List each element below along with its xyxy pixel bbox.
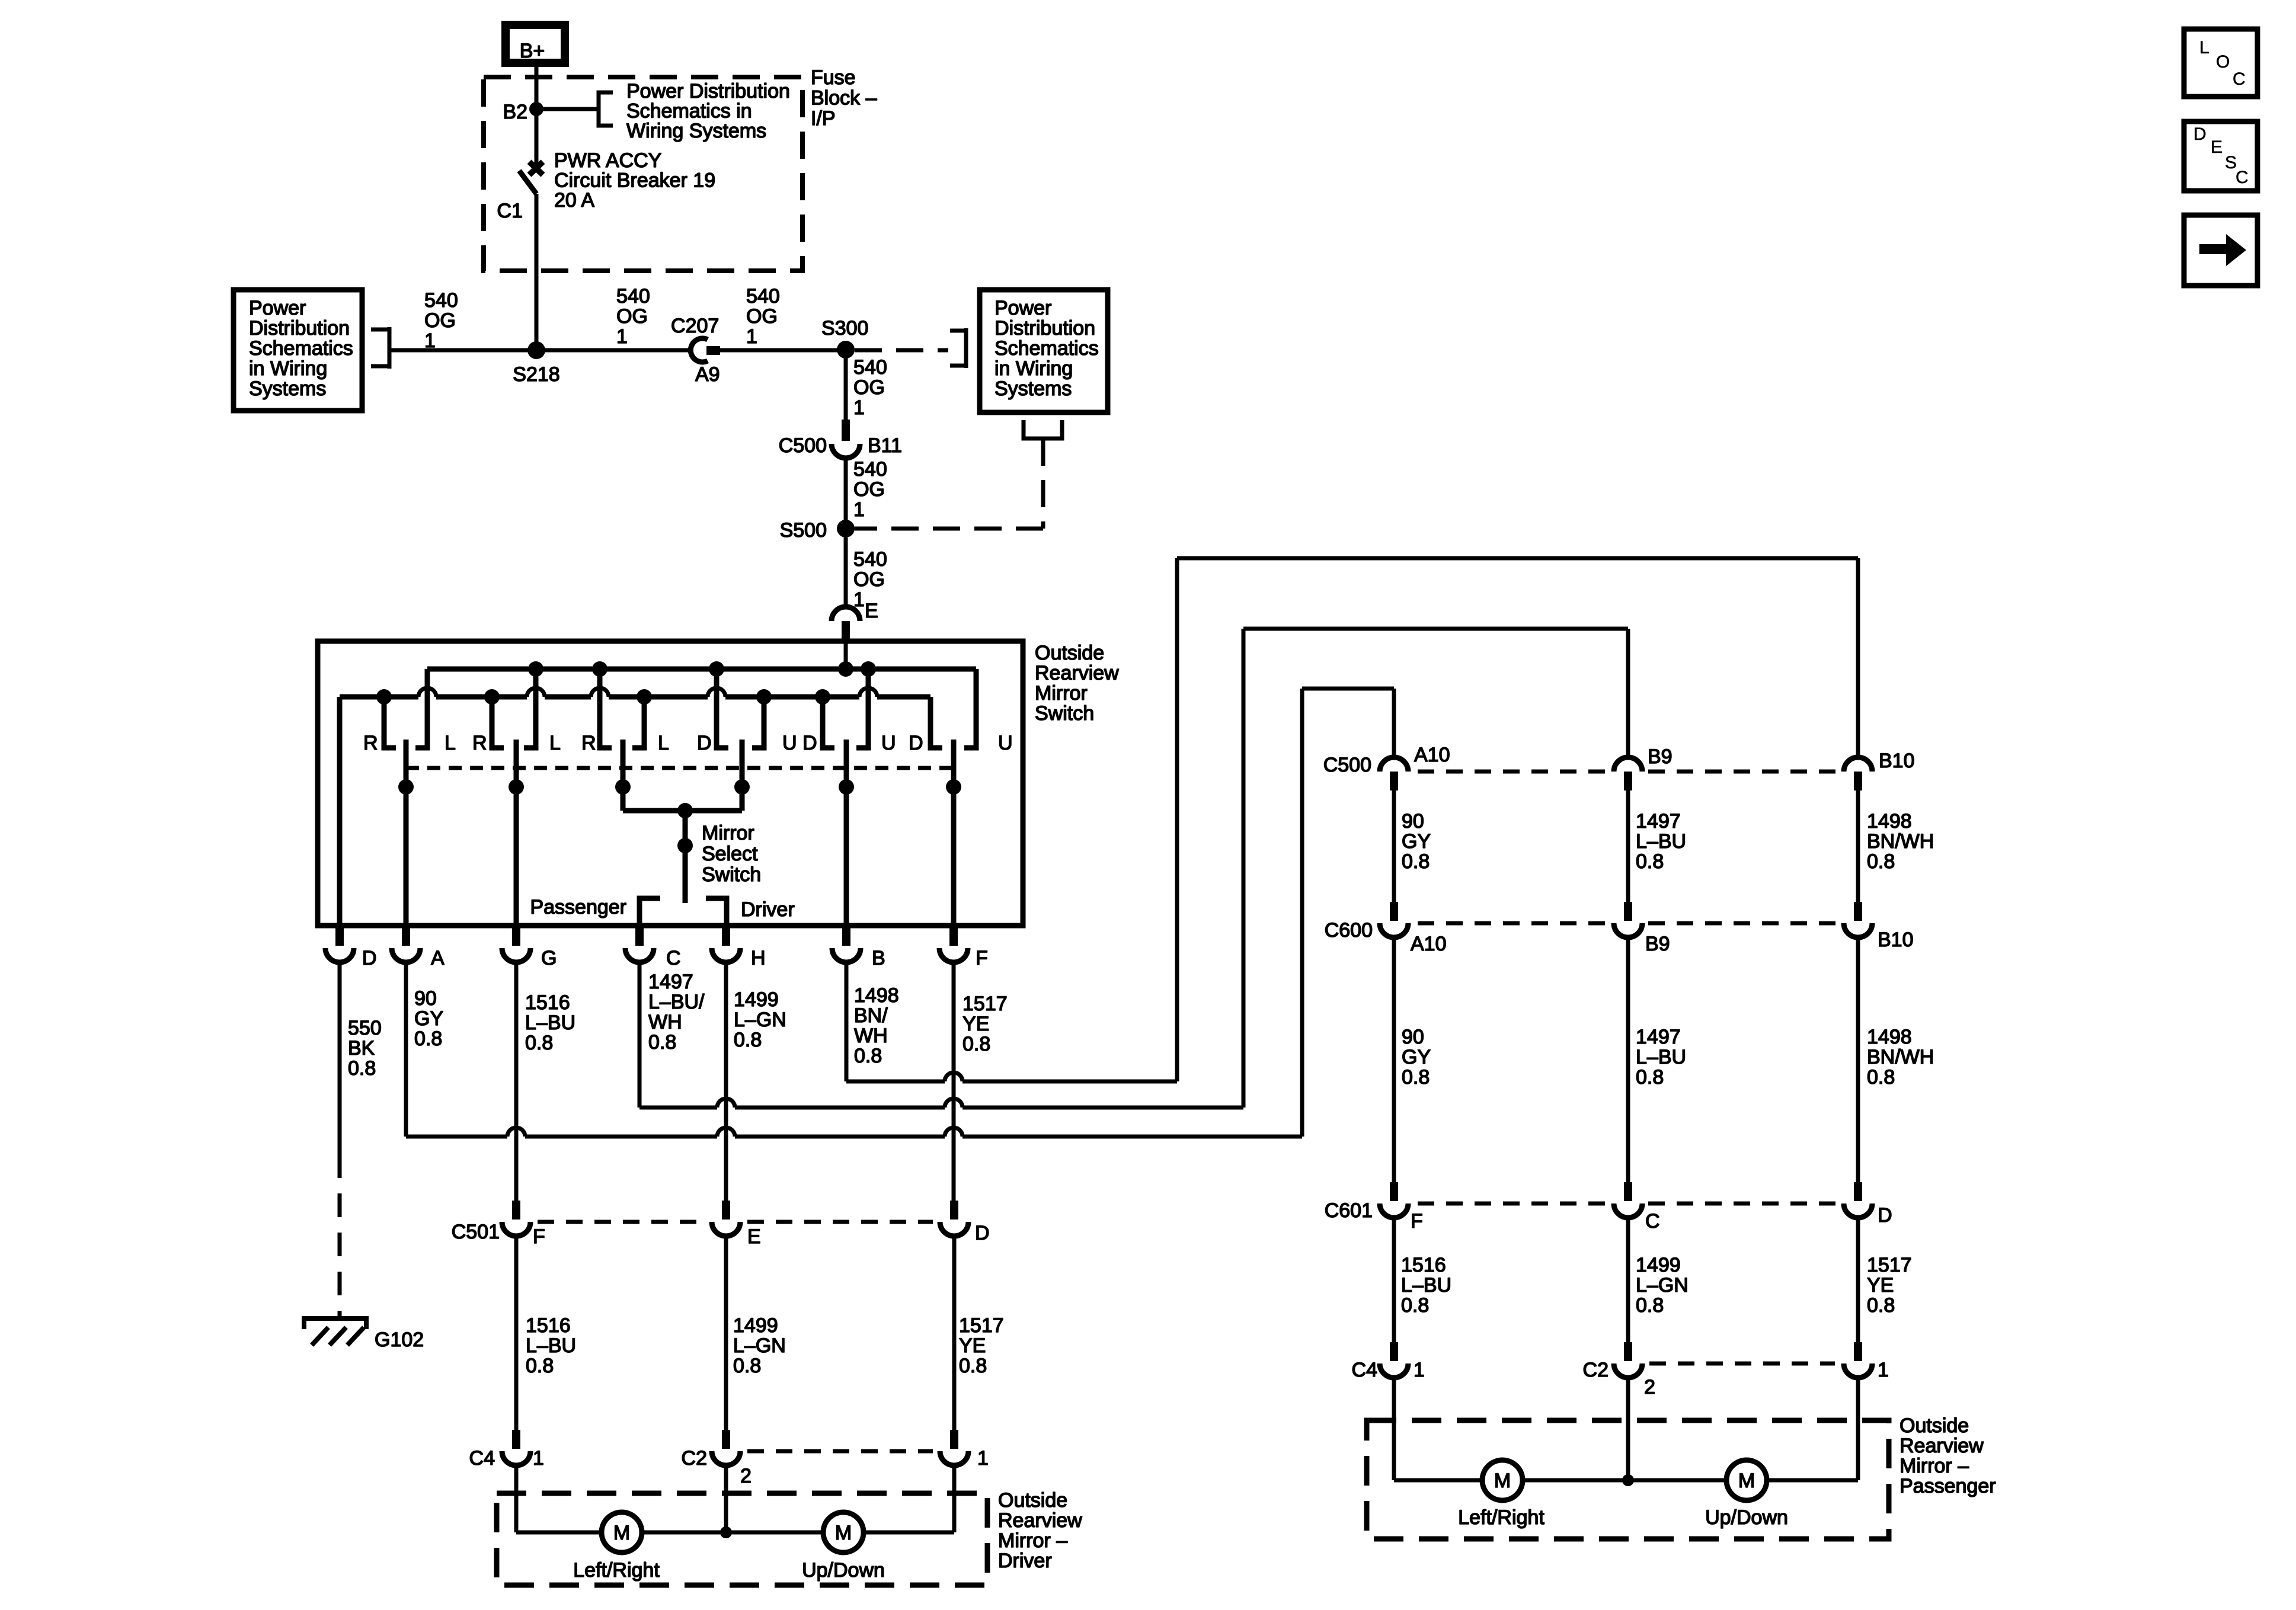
svg-text:Block –: Block – xyxy=(811,87,877,110)
svg-text:L–GN: L–GN xyxy=(1636,1274,1689,1297)
svg-text:R: R xyxy=(472,732,487,754)
wire 1497 C500 to C600 xyxy=(1626,790,1630,902)
svg-text:U: U xyxy=(998,732,1013,754)
wire 1499 C501 to C2 xyxy=(724,1236,728,1430)
svg-text:Power: Power xyxy=(249,297,306,319)
pole driver-UD to F xyxy=(951,740,957,926)
pole mid-UD to B xyxy=(844,740,849,926)
svg-text:in Wiring: in Wiring xyxy=(249,357,327,380)
svg-text:B2: B2 xyxy=(503,101,527,123)
svg-text:Switch: Switch xyxy=(702,863,761,886)
svg-text:1516: 1516 xyxy=(1401,1254,1446,1276)
svg-text:1499: 1499 xyxy=(733,1314,778,1337)
svg-text:Up/Down: Up/Down xyxy=(802,1559,885,1582)
wire 1517 C501 to C4-1 xyxy=(952,1236,957,1430)
connector pin B below switch xyxy=(842,926,850,946)
svg-text:G102: G102 xyxy=(375,1329,424,1351)
svg-text:H: H xyxy=(751,947,766,969)
node B2 xyxy=(529,102,543,116)
svg-text:90: 90 xyxy=(1402,1026,1424,1048)
svg-text:R: R xyxy=(363,732,378,754)
motor left/right driver xyxy=(602,1512,642,1553)
svg-text:Schematics in: Schematics in xyxy=(626,100,752,123)
svg-text:C1: C1 xyxy=(497,200,523,222)
circuit breaker CB19 contact X xyxy=(529,162,543,175)
svg-text:L: L xyxy=(445,732,456,754)
svg-text:A9: A9 xyxy=(695,363,720,386)
svg-text:Distribution: Distribution xyxy=(994,317,1095,340)
svg-text:R: R xyxy=(581,732,596,754)
pole mid-LR to G xyxy=(514,740,519,926)
wire C500 to S500 xyxy=(844,458,848,520)
connector E mirror switch xyxy=(832,607,860,621)
svg-text:C207: C207 xyxy=(671,315,719,337)
pole select-LR xyxy=(621,740,626,811)
svg-text:Mirror: Mirror xyxy=(702,822,754,844)
svg-text:1499: 1499 xyxy=(1636,1254,1681,1276)
svg-text:1: 1 xyxy=(533,1447,544,1470)
svg-text:1497: 1497 xyxy=(1636,810,1681,833)
svg-text:C: C xyxy=(2236,168,2249,187)
svg-text:WH: WH xyxy=(648,1011,682,1033)
svg-text:S500: S500 xyxy=(780,519,827,542)
dashed link C2 row passenger xyxy=(1649,1362,1835,1366)
svg-text:F: F xyxy=(533,1225,545,1248)
svg-text:L–BU/: L–BU/ xyxy=(648,991,705,1013)
svg-text:0.8: 0.8 xyxy=(1636,1294,1664,1317)
svg-text:540: 540 xyxy=(616,285,650,308)
contact L mid-LR (from row1) xyxy=(524,669,536,748)
wire C4-1 into passenger mirror xyxy=(1392,1378,1396,1480)
svg-text:OG: OG xyxy=(853,376,885,399)
svg-text:Driver: Driver xyxy=(741,898,795,921)
svg-text:E: E xyxy=(2211,137,2223,157)
svg-text:Wiring Systems: Wiring Systems xyxy=(626,120,766,142)
wire C2-2 into driver mirror xyxy=(724,1465,728,1532)
svg-text:540: 540 xyxy=(853,356,887,379)
svg-text:Schematics: Schematics xyxy=(994,337,1099,360)
wire 1499 L-GN from H to C501-E xyxy=(724,962,728,1201)
switch bus row2 with crossover hops xyxy=(340,694,418,700)
svg-text:C600: C600 xyxy=(1325,919,1373,942)
svg-text:0.8: 0.8 xyxy=(526,1355,554,1377)
svg-text:Switch: Switch xyxy=(1035,702,1094,725)
svg-text:0.8: 0.8 xyxy=(414,1028,442,1050)
svg-text:Passenger: Passenger xyxy=(530,896,626,918)
svg-text:Rearview: Rearview xyxy=(1900,1435,1984,1457)
passenger motor rail xyxy=(1394,1478,1482,1483)
svg-text:1: 1 xyxy=(746,325,757,348)
circuit breaker CB19 blade xyxy=(519,171,536,194)
svg-text:0.8: 0.8 xyxy=(1401,1294,1429,1317)
svg-text:Distribution: Distribution xyxy=(249,317,350,340)
svg-text:L–BU: L–BU xyxy=(1401,1274,1451,1297)
svg-text:L–BU: L–BU xyxy=(1636,1046,1686,1068)
svg-text:S218: S218 xyxy=(513,363,559,386)
svg-text:C4: C4 xyxy=(1352,1359,1377,1381)
svg-text:D: D xyxy=(362,947,377,969)
svg-text:Mirror –: Mirror – xyxy=(998,1529,1067,1552)
svg-text:D: D xyxy=(1878,1204,1892,1227)
svg-text:C2: C2 xyxy=(682,1447,707,1470)
svg-text:0.8: 0.8 xyxy=(648,1031,676,1054)
connector C501-D xyxy=(950,1201,958,1219)
svg-text:Power: Power xyxy=(994,297,1051,319)
node S500 xyxy=(837,520,855,537)
switch bus row1 xyxy=(427,667,976,672)
svg-text:Outside: Outside xyxy=(1900,1414,1969,1437)
connector C500 B11 xyxy=(842,420,850,441)
svg-text:D: D xyxy=(975,1222,990,1244)
svg-text:C: C xyxy=(2233,69,2246,89)
svg-text:B: B xyxy=(872,947,885,969)
svg-text:B9: B9 xyxy=(1645,933,1670,955)
svg-text:D: D xyxy=(697,732,712,754)
svg-text:G: G xyxy=(541,947,557,969)
svg-text:1517: 1517 xyxy=(962,993,1008,1015)
svg-text:M: M xyxy=(1738,1470,1755,1492)
svg-text:OG: OG xyxy=(424,309,456,332)
svg-text:E: E xyxy=(865,600,878,622)
connector C2-2 driver xyxy=(722,1430,730,1449)
svg-text:C500: C500 xyxy=(1323,754,1371,776)
connector pin C below switch xyxy=(635,926,644,946)
bracket right PD box xyxy=(950,328,966,368)
bracket below right PD box xyxy=(1024,420,1062,438)
svg-text:Left/Right: Left/Right xyxy=(1458,1506,1544,1529)
connector C500-B9 xyxy=(1614,757,1642,772)
svg-text:BN/WH: BN/WH xyxy=(1867,830,1934,853)
dashed link C601 row xyxy=(1418,1202,1608,1206)
svg-text:F: F xyxy=(976,947,988,969)
svg-text:B+: B+ xyxy=(520,40,545,62)
svg-text:U: U xyxy=(782,732,797,754)
node S300 xyxy=(837,341,855,359)
svg-text:L: L xyxy=(658,732,669,754)
svg-text:90: 90 xyxy=(1402,810,1424,833)
svg-text:2: 2 xyxy=(1644,1376,1655,1398)
svg-text:M: M xyxy=(835,1522,852,1544)
svg-text:1: 1 xyxy=(1414,1359,1425,1381)
svg-text:Systems: Systems xyxy=(249,377,326,400)
svg-text:C: C xyxy=(666,947,681,969)
svg-text:C601: C601 xyxy=(1325,1199,1373,1222)
ground G102 xyxy=(304,1318,366,1329)
svg-text:A10: A10 xyxy=(1414,744,1450,766)
svg-text:20 A: 20 A xyxy=(554,189,594,212)
driver motor rail xyxy=(516,1531,602,1535)
svg-text:I/P: I/P xyxy=(811,107,836,130)
svg-text:PWR ACCY: PWR ACCY xyxy=(554,149,661,172)
svg-text:Schematics: Schematics xyxy=(249,337,353,360)
mechanical coupling dashed line xyxy=(406,766,954,770)
svg-text:0.8: 0.8 xyxy=(348,1057,376,1080)
svg-text:550: 550 xyxy=(348,1017,382,1039)
svg-text:L–BU: L–BU xyxy=(526,1334,576,1357)
dashed link C500 row xyxy=(1418,770,1608,774)
svg-text:0.8: 0.8 xyxy=(525,1032,553,1054)
svg-text:1499: 1499 xyxy=(734,988,779,1011)
svg-text:OG: OG xyxy=(853,568,885,591)
svg-text:Left/Right: Left/Right xyxy=(573,1559,660,1582)
connector C600-B10 xyxy=(1854,902,1862,921)
svg-text:0.8: 0.8 xyxy=(959,1355,987,1377)
legend LOC box xyxy=(2184,29,2257,97)
svg-text:Rearview: Rearview xyxy=(998,1509,1082,1532)
svg-text:C500: C500 xyxy=(779,434,827,457)
contact D driver-UD (from row2) xyxy=(930,697,942,748)
svg-text:1497: 1497 xyxy=(1636,1026,1681,1048)
connector pin H below switch xyxy=(722,926,730,946)
svg-text:0.8: 0.8 xyxy=(1636,850,1664,873)
svg-text:Fuse: Fuse xyxy=(811,66,856,89)
svg-text:2: 2 xyxy=(740,1465,752,1487)
connector pin F below switch xyxy=(949,926,958,946)
wire B2 to reference bracket xyxy=(536,107,597,111)
svg-text:0.8: 0.8 xyxy=(733,1355,761,1377)
svg-text:B9: B9 xyxy=(1648,745,1673,768)
svg-text:A10: A10 xyxy=(1411,933,1447,955)
contact U driver-UD (from row1) xyxy=(964,669,976,748)
svg-text:L: L xyxy=(549,732,561,754)
connector pin D below switch xyxy=(335,926,344,946)
node S218 xyxy=(527,341,545,359)
select poles join xyxy=(623,808,742,814)
wire bracket to S218 xyxy=(389,348,536,353)
connector C601-F xyxy=(1390,1182,1398,1201)
svg-text:C4: C4 xyxy=(469,1447,495,1470)
power distribution box left xyxy=(234,290,362,411)
mirror select common pole xyxy=(683,811,688,903)
power distribution box right xyxy=(980,290,1108,412)
dashed link C2 row driver xyxy=(747,1449,933,1454)
svg-text:C501: C501 xyxy=(452,1221,500,1243)
connector C501-E xyxy=(722,1201,730,1219)
svg-text:540: 540 xyxy=(424,289,458,312)
svg-text:1: 1 xyxy=(616,325,628,348)
svg-text:O: O xyxy=(2216,52,2230,72)
wire C2-1 into passenger mirror xyxy=(1856,1378,1860,1480)
battery B+ terminal box xyxy=(506,25,565,63)
wire 550 BK from D xyxy=(338,962,342,1154)
wire 1517 C601 to C4-1 xyxy=(1856,1218,1860,1342)
svg-text:Passenger: Passenger xyxy=(1900,1475,1996,1497)
svg-text:1: 1 xyxy=(853,396,865,419)
svg-text:0.8: 0.8 xyxy=(962,1033,990,1055)
contact L passenger-LR (from row1) xyxy=(415,669,427,748)
svg-text:BK: BK xyxy=(348,1037,375,1060)
svg-text:Outside: Outside xyxy=(998,1489,1067,1512)
connector C601-C xyxy=(1624,1182,1632,1201)
row2 left end drop to connector D xyxy=(337,697,343,926)
dashed wire S300 to right PD box xyxy=(855,348,948,353)
svg-text:Power Distribution: Power Distribution xyxy=(626,80,790,103)
connector C600-A10 xyxy=(1390,902,1398,921)
svg-text:1497: 1497 xyxy=(648,971,693,993)
connector C207 A9 xyxy=(690,338,708,362)
connector C600-B9 xyxy=(1624,902,1632,921)
svg-text:1517: 1517 xyxy=(959,1314,1004,1337)
wire 1497 C600 to C601 xyxy=(1626,937,1630,1182)
contact D select-UD (from row1) xyxy=(717,669,728,748)
svg-text:BN/WH: BN/WH xyxy=(1867,1046,1934,1068)
svg-text:L–GN: L–GN xyxy=(734,1009,786,1031)
svg-text:1498: 1498 xyxy=(854,984,899,1007)
svg-text:Rearview: Rearview xyxy=(1035,662,1119,684)
wire E into switch xyxy=(844,640,848,671)
connector pin G below switch xyxy=(512,926,520,946)
bracket left PD box xyxy=(371,327,389,369)
wire 1516 L-BU from G to C501-F xyxy=(514,962,519,1201)
svg-text:F: F xyxy=(1411,1210,1423,1233)
contact R select-LR (from row1) xyxy=(600,669,612,748)
wire 1499 C601 to C2 xyxy=(1626,1218,1630,1342)
contact U mid-UD (from row1) xyxy=(856,669,868,748)
svg-text:S300: S300 xyxy=(821,317,868,340)
connector C501-F xyxy=(512,1201,520,1219)
motor left/right passenger xyxy=(1482,1460,1523,1500)
svg-text:WH: WH xyxy=(854,1025,888,1047)
wire 1498 BN/WH from B to C500-B10 xyxy=(845,962,849,1081)
wire 1498 C600 to C601 xyxy=(1856,937,1860,1182)
contact D mid-UD (from row2) xyxy=(823,697,834,748)
wire C2-1 into driver mirror xyxy=(952,1465,957,1532)
svg-text:D: D xyxy=(802,732,817,754)
select throw passenger xyxy=(639,898,660,926)
connector C4-1 passenger xyxy=(1390,1342,1398,1361)
svg-text:C: C xyxy=(1645,1210,1660,1233)
outside rearview mirror switch box xyxy=(318,641,1023,926)
svg-text:YE: YE xyxy=(1867,1274,1894,1297)
svg-text:540: 540 xyxy=(746,285,780,308)
svg-text:0.8: 0.8 xyxy=(1867,1066,1895,1089)
svg-text:B10: B10 xyxy=(1879,750,1915,772)
svg-text:M: M xyxy=(1494,1470,1511,1492)
svg-text:90: 90 xyxy=(414,987,437,1010)
wire breaker to bus xyxy=(535,194,539,350)
wire C2-2 into passenger mirror xyxy=(1626,1378,1630,1480)
row2 junction dots xyxy=(376,689,392,705)
pole passenger-LR to A xyxy=(404,740,409,926)
svg-text:S: S xyxy=(2225,153,2237,172)
pole select-UD xyxy=(740,740,745,811)
dashed link C501 row xyxy=(538,1220,705,1224)
svg-text:1498: 1498 xyxy=(1867,810,1912,833)
reference bracket fuse block xyxy=(599,92,613,126)
svg-text:540: 540 xyxy=(853,458,887,481)
svg-text:1517: 1517 xyxy=(1867,1254,1912,1276)
svg-text:Circuit Breaker 19: Circuit Breaker 19 xyxy=(554,169,715,192)
connector C2-1 passenger right xyxy=(1854,1342,1862,1361)
svg-text:Driver: Driver xyxy=(998,1550,1052,1572)
wire 1517 YE from F to C501-D xyxy=(952,962,956,1201)
dashed link C600 row xyxy=(1418,921,1608,926)
svg-text:1: 1 xyxy=(1878,1359,1889,1381)
wire 90 GY from A to C500-A10 xyxy=(404,962,408,1137)
wire S300 to C500 xyxy=(844,350,848,420)
svg-text:Systems: Systems xyxy=(994,377,1072,400)
connector C2-2 passenger xyxy=(1624,1342,1632,1361)
svg-text:L–GN: L–GN xyxy=(733,1334,786,1357)
connector C500-A10 xyxy=(1380,757,1408,772)
wire C207 to S300 xyxy=(720,348,846,353)
driver mirror dashed box xyxy=(497,1493,987,1585)
svg-text:in Wiring: in Wiring xyxy=(994,357,1073,380)
svg-text:1: 1 xyxy=(853,498,865,521)
svg-text:GY: GY xyxy=(414,1007,443,1030)
svg-text:OG: OG xyxy=(853,478,885,501)
svg-text:L–BU: L–BU xyxy=(525,1012,575,1034)
svg-text:OG: OG xyxy=(616,305,648,328)
svg-text:Mirror –: Mirror – xyxy=(1900,1455,1969,1477)
connector C500-B10 xyxy=(1844,757,1872,772)
legend arrow box xyxy=(2184,215,2257,286)
svg-text:D: D xyxy=(909,732,923,754)
svg-text:GY: GY xyxy=(1402,830,1431,853)
svg-text:C2: C2 xyxy=(1583,1359,1609,1381)
svg-text:GY: GY xyxy=(1402,1046,1431,1068)
select throw driver xyxy=(706,898,727,926)
wire 1498 C500 to C600 xyxy=(1856,790,1860,902)
connector C4-1 driver xyxy=(512,1430,520,1449)
wire 1516 C601 to C4 xyxy=(1392,1218,1396,1342)
connector pin A below switch xyxy=(402,926,410,946)
motor up/down passenger xyxy=(1726,1460,1767,1500)
svg-text:Select: Select xyxy=(702,843,758,865)
dashed wire right PD box to S500 xyxy=(1041,438,1045,529)
svg-text:1516: 1516 xyxy=(525,991,570,1014)
contact L select-LR (from row2) xyxy=(632,697,644,748)
svg-text:BN/: BN/ xyxy=(854,1004,888,1027)
row1 right end drop xyxy=(974,669,979,745)
legend DESC box xyxy=(2184,121,2257,191)
svg-text:0.8: 0.8 xyxy=(1867,1294,1895,1317)
svg-text:1498: 1498 xyxy=(1867,1026,1912,1048)
svg-text:YE: YE xyxy=(962,1013,989,1035)
svg-text:0.8: 0.8 xyxy=(1867,850,1895,873)
svg-text:0.8: 0.8 xyxy=(734,1029,762,1051)
svg-text:B11: B11 xyxy=(868,434,902,457)
svg-text:Outside: Outside xyxy=(1035,642,1104,664)
svg-text:YE: YE xyxy=(959,1334,986,1357)
wire 1516 C501 to C4 xyxy=(514,1236,519,1430)
svg-text:D: D xyxy=(2193,124,2207,144)
wire 90 GY C500 to C600 xyxy=(1392,790,1396,902)
svg-text:E: E xyxy=(747,1225,761,1248)
svg-text:0.8: 0.8 xyxy=(1402,1066,1430,1089)
svg-text:1: 1 xyxy=(424,329,436,352)
svg-text:0.8: 0.8 xyxy=(1636,1066,1664,1089)
row1 junction dots xyxy=(528,661,543,677)
svg-text:U: U xyxy=(881,732,896,754)
connector C2-1 driver right xyxy=(950,1430,958,1449)
wire 90 GY C600 to C601 xyxy=(1392,937,1396,1182)
wire 1497 L-BU/WH from C to C500-B9 xyxy=(638,962,642,1108)
fuse block I/P dashed box xyxy=(484,77,802,271)
passenger mirror dashed box xyxy=(1367,1420,1889,1539)
svg-text:L–BU: L–BU xyxy=(1636,830,1686,853)
svg-text:540: 540 xyxy=(853,548,887,571)
svg-text:L: L xyxy=(2199,38,2209,57)
motor up/down driver xyxy=(823,1512,864,1553)
svg-text:0.8: 0.8 xyxy=(1402,850,1430,873)
svg-text:A: A xyxy=(431,947,445,969)
svg-text:M: M xyxy=(613,1522,630,1544)
wire C4-1 into driver mirror xyxy=(514,1465,519,1532)
svg-text:Mirror: Mirror xyxy=(1035,682,1088,705)
svg-text:1: 1 xyxy=(977,1447,989,1470)
contact U select-UD (from row2) xyxy=(752,697,764,748)
